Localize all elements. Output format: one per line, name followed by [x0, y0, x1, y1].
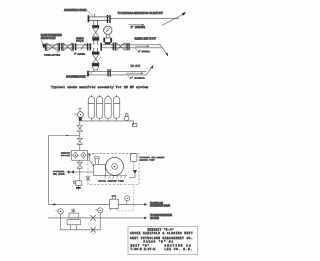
valve VB gate valve on inlet	[63, 43, 72, 51]
flow arrow on pit branch	[126, 72, 143, 74]
remote choke box with two diamonds	[72, 150, 88, 160]
wire: bottom branch to pit (double line)	[88, 72, 147, 75]
leader arrowhead at pipe inlet	[42, 44, 46, 49]
check valve CV1 flapper symbol	[81, 44, 87, 49]
leader for bleed 2" NOMINAL	[135, 48, 137, 51]
air motor outlet elbow	[129, 174, 135, 177]
wire: bleed line (double)	[102, 45, 162, 48]
svg-text:SECTION 16: SECTION 16	[165, 244, 191, 247]
wire: line C bypass	[61, 218, 101, 230]
flange below valve V2	[92, 64, 99, 67]
accumulator bottle 3	[105, 95, 111, 121]
valve V1 gate valve on manifold (vertical bowtie)	[93, 28, 99, 37]
regulator R1 on header	[124, 113, 129, 121]
svg-text:PARCO "B" #1: PARCO "B" #1	[144, 240, 174, 244]
wire: manifold vertical pipe walls	[94, 20, 98, 66]
label: OPTIONAL 2ND CHOKE	[53, 170, 65, 175]
wire: skid drop line	[87, 181, 89, 185]
valve X2 on vertical main	[77, 138, 82, 144]
valve XC on line C	[91, 227, 96, 235]
pump flywheel circle	[106, 158, 124, 176]
label: TO RAM PREVENTER VALVES	[150, 214, 172, 220]
gauge PG1 with needle	[104, 26, 112, 34]
dashed air line from canister	[133, 162, 135, 170]
air motor (solid)	[133, 170, 137, 174]
leader for pit 2" NOMINAL	[127, 75, 129, 77]
svg-text:SECOND PUMP: SECOND PUMP	[140, 159, 156, 162]
svg-text:BLEED LINE TO PIT: BLEED LINE TO PIT	[135, 37, 157, 40]
flange left of valve VA	[45, 44, 46, 51]
wire: top branch pipe to separator (double line)	[89, 14, 111, 20]
gauge PG2 isolation valve block	[79, 118, 82, 121]
skid top-left fitting	[88, 154, 93, 166]
gauge isolation valve block	[104, 38, 112, 42]
relief valve RV1	[73, 181, 81, 190]
flange pair right of VB	[72, 43, 76, 50]
gauge C near reservoir	[125, 196, 130, 205]
leader from top ADJUSTABLE CHOKE label	[87, 11, 93, 16]
svg-text:PREVENTER VALVE: PREVENTER VALVE	[150, 205, 170, 208]
wire: inlet line from BOP (double line)	[45, 45, 92, 48]
fitting box at header end	[132, 123, 137, 126]
gauge PG2 closing unit	[78, 112, 84, 118]
wire: line B to ram preventers	[48, 217, 144, 219]
gauge neck funnel	[106, 34, 110, 38]
wire: separator line single run with arrow	[111, 12, 186, 26]
dashed pilot line from skid to reservoir	[118, 186, 133, 211]
valve V2 gate valve on lower manifold	[93, 55, 99, 64]
flange pair left of bleed valve	[113, 43, 116, 51]
svg-text:VALVES: VALVES	[150, 217, 159, 220]
pump base with hatching	[104, 176, 127, 179]
adjustable choke funnel	[92, 66, 99, 70]
svg-text:T-29-N R-97-W: T-29-N R-97-W	[131, 248, 156, 251]
motor box	[94, 164, 106, 175]
manifold regulator above line B	[69, 208, 79, 218]
flow arrow 2" NOMINAL (top)	[129, 24, 145, 26]
adjustable arrow tick on valve V2	[98, 57, 100, 60]
svg-text:2" NOMINAL: 2" NOMINAL	[131, 26, 146, 29]
valve (solid bowtie) on optional branch	[68, 170, 74, 174]
left flow arrow on line A	[52, 203, 56, 205]
valve VA gate valve on inlet	[47, 43, 58, 51]
leader from CHECK VALVE label	[80, 42, 81, 44]
svg-text:2ND CHOKE: 2ND CHOKE	[53, 172, 65, 175]
label: CHECK VALVE	[76, 38, 84, 42]
svg-text:CHOKE: CHOKE	[61, 154, 71, 157]
label: REMOTE CHOKE	[61, 151, 71, 156]
flange pair right of bleed valve	[126, 43, 129, 50]
arrowhead at end of line B	[144, 217, 147, 220]
accumulator bottle 4	[113, 95, 119, 121]
reservoir on line A	[110, 195, 119, 210]
label: BLOWOUT PREVENTER STACK OUTLET	[41, 34, 62, 40]
leader for inlet 2" NOMINAL	[72, 50, 74, 53]
flange pair on pit branch	[107, 69, 111, 76]
valve X3 below remote choke	[77, 162, 82, 168]
svg-text:ADJUSTABLE CHOKE: ADJUSTABLE CHOKE	[64, 9, 87, 12]
svg-text:UNIT "B": UNIT "B"	[131, 243, 150, 247]
svg-text:LEA CO. N.M.: LEA CO. N.M.	[165, 248, 193, 251]
wire: closing unit vertical main	[79, 121, 81, 181]
svg-text:2" NOMINAL: 2" NOMINAL	[130, 76, 146, 79]
flange pair F1 on top branch	[107, 15, 111, 23]
flow arrow on loop line	[66, 135, 69, 137]
lower regulator box	[67, 220, 80, 230]
wire: loop line from vertical main to left riser	[48, 136, 80, 205]
pump skid dashed box	[88, 153, 139, 184]
wire: accumulator header	[80, 120, 133, 122]
wire: line A to annular preventer	[48, 203, 144, 205]
flange pair between VA and VB	[59, 43, 63, 51]
tick arrow left of gauge PG2	[74, 113, 77, 116]
svg-text:2" NOMINAL: 2" NOMINAL	[74, 52, 86, 55]
svg-text:OPTIONAL 2ND VALVE: OPTIONAL 2ND VALVE	[44, 53, 61, 56]
svg-text:CHOKE MANIFOLD & CLOSING UNIT: CHOKE MANIFOLD & CLOSING UNIT	[130, 232, 193, 235]
bleed line end cut diagonal with arrow	[160, 44, 169, 57]
flange on manifold below top tee	[92, 25, 99, 28]
svg-text:TO ANNULAR: TO ANNULAR	[150, 202, 163, 205]
accumulator bottle 1	[88, 95, 94, 121]
flange at left end of top branch	[88, 15, 90, 22]
wire: optional choke branch line	[66, 171, 93, 173]
leader from OPTIONAL label	[57, 51, 60, 53]
flange pair before manifold cross	[87, 43, 91, 50]
valve X at skid left edge	[86, 176, 90, 180]
label: TO ANNULAR PREVENTER VALVE	[150, 202, 170, 208]
manifold cross bottom flange	[92, 52, 99, 55]
motor chimney	[95, 156, 99, 164]
svg-text:MOTOR DRIVEN PUMP: MOTOR DRIVEN PUMP	[99, 179, 125, 182]
leader from BOP label to pipe	[41, 40, 44, 45]
gauge A on line B	[55, 209, 63, 218]
flow arrow on bleed line	[135, 45, 149, 47]
svg-text:TO PIT: TO PIT	[131, 65, 141, 68]
manifold cross right flange	[100, 43, 102, 51]
svg-text:Typical choke manifold assembl: Typical choke manifold assembly for 2M W…	[51, 85, 148, 89]
svg-text:ADJUSTABLE CHOKE: ADJUSTABLE CHOKE	[66, 76, 86, 79]
pit line end cut diagonal with arrow	[147, 65, 154, 75]
valve X1 on vertical main	[77, 125, 82, 131]
accumulator gauge top tee	[78, 108, 81, 111]
svg-text:TO RAM PREVENTER: TO RAM PREVENTER	[150, 214, 172, 217]
svg-text:TO MUD/GAS SEPARATOR OR MUD PI: TO MUD/GAS SEPARATOR OR MUD PIT	[118, 11, 164, 15]
title block box	[128, 227, 198, 255]
arrowhead at end of line A	[144, 203, 147, 206]
air canister	[130, 154, 137, 162]
gauge B on line B	[95, 208, 103, 218]
title block text	[130, 228, 193, 251]
valve XB on line B	[90, 215, 95, 221]
valve V3 gate valve on bleed line	[116, 43, 125, 51]
leader from ADJUSTABLE CHOKE label	[86, 69, 97, 76]
svg-text:STACK OUTLET: STACK OUTLET	[41, 37, 57, 40]
header elbow to fitting	[132, 121, 133, 125]
tee from gauge into bleed line	[105, 43, 111, 45]
accumulator bottle 2	[96, 95, 102, 121]
label: OPTIONAL AIR DRIVEN SECOND PUMP	[140, 156, 165, 162]
flange at left end of pit branch	[87, 71, 89, 77]
svg-text:2" NOMINAL: 2" NOMINAL	[138, 50, 151, 53]
flange below valve V1	[92, 37, 99, 40]
